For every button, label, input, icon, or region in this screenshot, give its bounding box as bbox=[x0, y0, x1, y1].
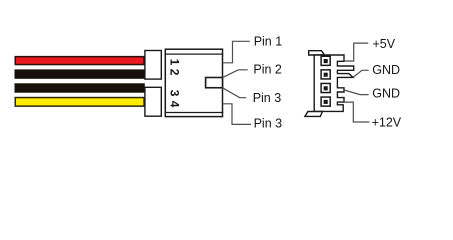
leader pin 2 bbox=[223, 70, 248, 78]
wire black 1 (pin 2, GND) bbox=[15, 70, 144, 78]
connector boot lower bbox=[145, 87, 161, 116]
header pin 3 square bbox=[321, 83, 330, 92]
header body J2 with castellated right edge bbox=[314, 55, 354, 111]
wire yellow (pin 4, +12V) bbox=[15, 98, 144, 107]
header pin 4 square bbox=[321, 97, 330, 106]
connector boot upper bbox=[145, 51, 161, 80]
leader pin 1 bbox=[223, 41, 250, 63]
svg-text:GND: GND bbox=[372, 87, 400, 101]
wire red (pin 1, +5V) bbox=[15, 57, 144, 65]
header pin 1 square bbox=[321, 56, 330, 65]
header foot bbox=[305, 112, 323, 117]
body rim top bbox=[165, 53, 224, 55]
svg-text:Pin 3: Pin 3 bbox=[253, 91, 282, 105]
latch slot bbox=[206, 78, 223, 88]
svg-text:Pin 3: Pin 3 bbox=[254, 117, 283, 131]
svg-text:Pin 1: Pin 1 bbox=[254, 35, 283, 49]
svg-text:1: 1 bbox=[167, 59, 181, 66]
svg-text:3: 3 bbox=[167, 90, 181, 97]
leader pin 3 bbox=[223, 88, 247, 98]
svg-text:+5V: +5V bbox=[373, 37, 396, 51]
leader GND 1 bbox=[353, 70, 369, 77]
svg-text:GND: GND bbox=[372, 63, 400, 77]
wire black 2 (pin 3, GND) bbox=[15, 84, 144, 92]
svg-text:+12V: +12V bbox=[372, 115, 402, 129]
leader GND 2 bbox=[344, 90, 369, 95]
svg-text:4: 4 bbox=[167, 101, 181, 108]
header pin 2 square bbox=[321, 70, 330, 79]
leader pin 4 bbox=[223, 104, 252, 125]
svg-text:2: 2 bbox=[167, 69, 181, 76]
header tab top bbox=[309, 51, 325, 55]
body rim bottom bbox=[165, 112, 224, 114]
leader +12V bbox=[344, 102, 369, 122]
connector body J1 bbox=[165, 49, 222, 116]
leader +5V bbox=[344, 43, 368, 61]
svg-text:Pin 2: Pin 2 bbox=[253, 62, 282, 76]
